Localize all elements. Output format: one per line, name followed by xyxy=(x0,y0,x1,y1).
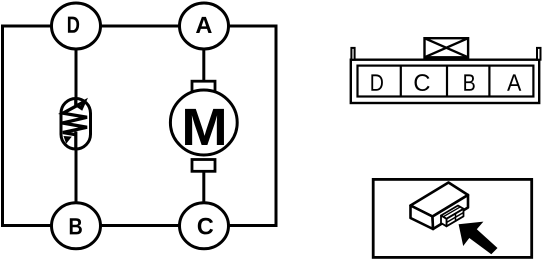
location box frame xyxy=(373,179,532,257)
connector J1 housing xyxy=(351,60,539,103)
motor M1 xyxy=(170,81,237,171)
control module icon xyxy=(411,183,469,230)
module front-left face xyxy=(411,206,434,230)
wire: A to motor xyxy=(202,47,205,83)
module connector block top ridge xyxy=(443,207,460,217)
thermistor R xyxy=(61,99,91,150)
module connector block grid xyxy=(455,214,457,222)
node A xyxy=(180,3,229,49)
node C xyxy=(180,203,229,249)
module connector block front xyxy=(447,209,464,227)
terminal top xyxy=(192,81,215,93)
label M xyxy=(185,109,224,145)
pointer arrow xyxy=(459,222,498,255)
pin D xyxy=(371,74,383,90)
motor body xyxy=(170,90,237,155)
pin B xyxy=(464,74,475,90)
pin A xyxy=(507,74,521,90)
wire: thermistor to B xyxy=(75,132,78,205)
node B xyxy=(52,203,101,249)
node D xyxy=(52,3,101,49)
module top face xyxy=(411,183,469,217)
connector pin row xyxy=(358,66,534,97)
module front-right face xyxy=(433,195,469,229)
wire: D to thermistor xyxy=(75,47,78,101)
wire: motor to C xyxy=(202,171,205,205)
connector keying tab (crossed box) xyxy=(425,38,469,57)
module connector block top xyxy=(441,206,464,219)
connector tab right xyxy=(537,48,541,60)
module connector block left cap xyxy=(441,216,447,227)
connector tab left xyxy=(351,48,354,60)
wire: outer circuit loop xyxy=(3,26,277,226)
terminal bottom xyxy=(192,160,215,172)
pin C xyxy=(415,74,430,91)
